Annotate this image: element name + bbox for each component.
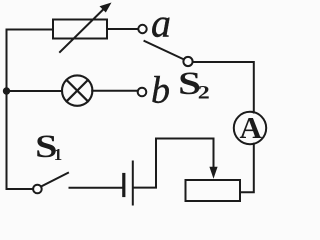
svg-text:A: A (240, 110, 263, 145)
svg-text:b: b (151, 70, 170, 112)
svg-text:1: 1 (54, 145, 63, 164)
svg-text:a: a (151, 1, 171, 46)
svg-text:2: 2 (198, 82, 210, 103)
